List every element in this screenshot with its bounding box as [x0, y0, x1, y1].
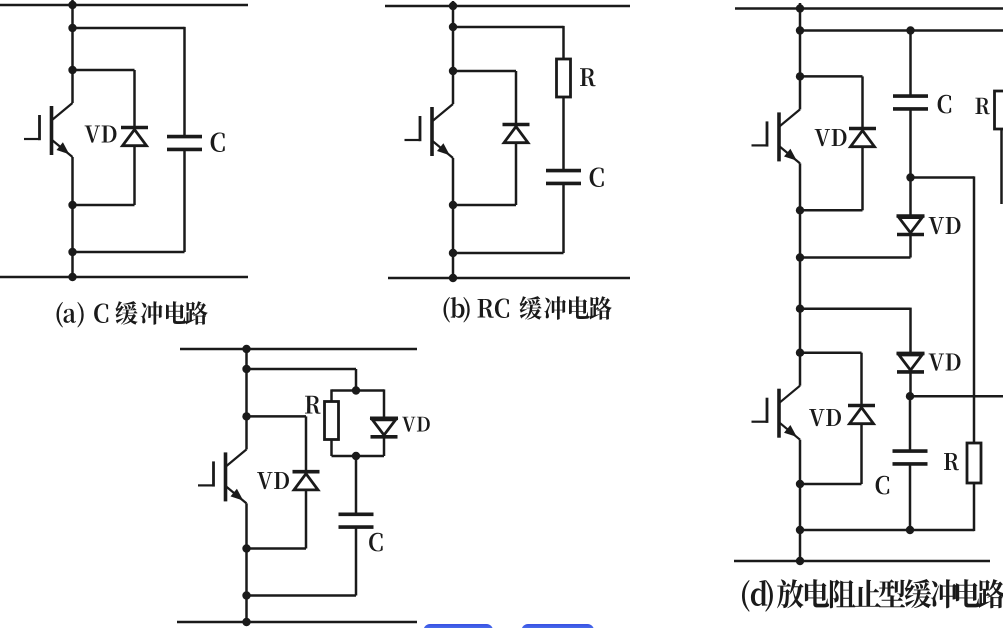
wire: VD branch bottom horizontal lower IGBT (d)	[800, 483, 862, 486]
wire: capacitor branch bottom horizontal (a)	[73, 251, 185, 254]
wire: top DC bus of circuit (b)	[385, 5, 630, 8]
node: junction dot RC return (b)	[449, 249, 457, 257]
node: junction dot capacitor C1 tap (d)	[906, 26, 914, 34]
wire: rail between IGBTs (d)	[799, 163, 802, 352]
wire: collector lead of Q1(d)	[799, 76, 802, 109]
capacitor C (a)	[167, 135, 202, 139]
transistor Q(a) (IGBT)	[24, 103, 73, 157]
wire: VD branch upper vertical lower IGBT (d)	[860, 353, 863, 406]
capacitor C upper snubber (d)	[893, 94, 928, 98]
wire: collector rail segment upper IGBT (d)	[799, 9, 802, 77]
wire: emitter rail segment (a)	[71, 157, 74, 277]
wire: VD branch lower vertical lower IGBT (d)	[860, 424, 863, 485]
wire: snubber bus horizontal (d)	[800, 29, 1003, 32]
wire: top DC bus of circuit (c)	[180, 348, 417, 351]
transistor Q(b) (IGBT)	[405, 104, 454, 158]
node: junction dot snubber branch tap (c)	[242, 365, 250, 373]
diode VD discharge (points down) (c)	[370, 416, 398, 420]
wire: diode branch lower vertical (b)	[515, 143, 518, 206]
label R (c)	[305, 396, 321, 414]
label caption (a)C缓冲电路	[57, 301, 208, 327]
label C (c)	[369, 533, 383, 552]
wire: midpoint horizontal (d)	[800, 307, 911, 310]
wire: snubber branch top horizontal (c)	[247, 368, 357, 371]
wire: capacitor lower vertical (c)	[355, 527, 358, 596]
node: junction dot emitter (b)	[449, 201, 457, 209]
wire: VD2 upper lead (d)	[909, 308, 912, 354]
node: junction dot collector (c)	[242, 412, 250, 420]
wire: top DC bus of circuit (a)	[0, 4, 248, 7]
node A: junction dot R/VD parallel top (c)	[352, 386, 360, 394]
label VD (c)	[257, 472, 289, 489]
resistor R (c)	[325, 402, 339, 440]
wire: RC branch lower vertical (b)	[562, 184, 565, 253]
wire: VD branch upper vertical upper IGBT (d)	[861, 76, 864, 128]
label R (b)	[580, 68, 596, 86]
diode VD antiparallel (a)	[121, 126, 148, 130]
node: junction dot bottom bus (d)	[796, 557, 804, 565]
wire: collector lead of Q(b)	[452, 71, 455, 104]
wire: snubber return horizontal (c)	[247, 594, 357, 597]
node B: junction dot R/VD parallel bottom (c)	[352, 452, 360, 460]
node: junction dot VD1 return on rail (d)	[796, 253, 804, 261]
node: junction dot emitter (a)	[68, 201, 76, 209]
wire: diode branch bottom horizontal (a)	[73, 204, 135, 207]
wire: emitter rail segment lower IGBT (d)	[799, 440, 802, 561]
label C upper (d)	[938, 95, 952, 114]
node: junction dot emitter (c)	[242, 544, 250, 552]
label VD parallel (c)	[402, 417, 430, 432]
transistor Q(c) (IGBT)	[198, 449, 247, 503]
node: junction dot C2 bottom (d)	[906, 526, 914, 534]
resistor R (b)	[557, 59, 571, 97]
node: junction dot snubber bottom on rail (d)	[796, 526, 804, 534]
wire: VD2 lower lead (d)	[909, 372, 912, 396]
node: junction dot RC branch tap (b)	[449, 23, 457, 31]
wire: rail stub above top bus (b)	[452, 1, 455, 6]
wire: collector lead of Q2(d)	[799, 353, 802, 386]
wire: diode branch top horizontal (c)	[247, 415, 307, 418]
wire: diode branch bottom horizontal (b)	[453, 204, 516, 207]
node: junction dot collector upper IGBT (d)	[796, 72, 804, 80]
transistor Q2(d) (IGBT)	[752, 386, 801, 440]
resistor R lower snubber (d)	[967, 443, 981, 483]
capacitor C (b)	[546, 169, 581, 173]
node: junction dot top bus / rail (b)	[449, 2, 457, 10]
diode VD1 snubber (points down) (d)	[897, 214, 925, 218]
node: junction dot top bus / rail (d)	[796, 4, 804, 12]
node A: junction dot C1/VD1 (d)	[906, 173, 914, 181]
wire: node A horizontal to R branch (d)	[911, 176, 975, 179]
node: junction dot snubber bus tap (d)	[796, 26, 804, 34]
wire: node B horizontal to image edge (d)	[910, 395, 1003, 398]
diode VD antiparallel (c)	[293, 470, 320, 474]
wire: diode branch top horizontal (b)	[453, 70, 516, 73]
wire: collector lead of Q(a)	[71, 70, 74, 103]
wire: top DC bus of circuit (d)	[735, 7, 1003, 10]
wire: C1 lower lead (d)	[909, 109, 912, 178]
wire: VD branch lower vertical upper IGBT (d)	[861, 147, 864, 211]
wire: capacitor branch top horizontal (a)	[73, 27, 185, 30]
node: junction dot capacitor branch tap (a)	[68, 24, 76, 32]
wire: resistor bottom lead (c)	[330, 440, 333, 457]
diode VD antiparallel (b)	[503, 123, 530, 127]
wire: C2 upper lead (d)	[909, 396, 912, 451]
label VD (a)	[85, 126, 117, 143]
node: junction dot emitter upper IGBT (d)	[796, 206, 804, 214]
capacitor C lower snubber (d)	[893, 449, 928, 453]
node: junction dot bottom bus (c)	[242, 618, 250, 626]
node: junction dot snubber return (c)	[242, 591, 250, 599]
capacitor C (c)	[339, 512, 374, 516]
node: junction dot collector (a)	[68, 66, 76, 74]
wire: collector lead of Q(c)	[245, 416, 248, 449]
node: junction dot collector lower IGBT (d)	[796, 349, 804, 357]
wire: bottom DC bus of circuit (c)	[177, 621, 417, 624]
label VD1 (d)	[929, 217, 961, 234]
wire: C2 lower lead (d)	[909, 464, 912, 530]
diode VD2 snubber (points down) (d)	[897, 352, 925, 356]
label R upper (d)	[975, 98, 989, 115]
label C (a)	[211, 133, 225, 153]
wire: RC branch bottom horizontal (b)	[453, 252, 564, 255]
wire: bottom DC bus of circuit (d)	[734, 560, 990, 563]
node: junction dot midpoint tap (d)	[796, 305, 804, 313]
wire: VD branch bottom horizontal upper IGBT (d)	[800, 209, 863, 212]
diode VD antiparallel lower IGBT (d)	[848, 404, 875, 408]
wire: emitter rail segment (c)	[245, 503, 248, 622]
node: junction dot bottom bus (b)	[449, 274, 457, 282]
label R lower (d)	[944, 453, 959, 470]
wire: VD1 upper lead (d)	[909, 178, 912, 217]
wire: capacitor branch upper vertical (a)	[183, 27, 186, 137]
wire: VD branch top horizontal upper IGBT (d)	[800, 75, 863, 78]
wire: diode branch upper vertical (b)	[515, 71, 518, 125]
wire: VD1 lower lead (d)	[909, 235, 912, 258]
wire: collector rail segment (b)	[452, 6, 455, 71]
wire: rail stub above top bus (a)	[71, 0, 74, 5]
wire: R upper bottom lead (d)	[1000, 129, 1003, 204]
label C (b)	[590, 168, 604, 188]
label C lower (d)	[876, 476, 890, 495]
decorative: blue button 1 (partially visible)	[424, 624, 494, 628]
wire: rail stub above top bus (d)	[799, 3, 802, 9]
wire: C1 upper lead (d)	[909, 31, 912, 97]
wire: resistor-to-capacitor vertical (b)	[562, 97, 565, 170]
wire: diode branch lower vertical (c)	[305, 490, 308, 549]
diode VD antiparallel upper IGBT (d)	[849, 127, 876, 131]
wire: parallel diode top lead (c)	[383, 389, 386, 418]
wire: VD branch top horizontal lower IGBT (d)	[800, 351, 862, 354]
wire: diode branch upper vertical (c)	[305, 416, 308, 472]
wire: parallel diode bottom lead (c)	[383, 437, 386, 456]
wire: RC branch lead into resistor (b)	[562, 26, 565, 59]
wire: collector rail segment (a)	[71, 5, 74, 70]
label VD antiparallel upper (d)	[815, 129, 847, 146]
wire: parallel loop top horizontal (c)	[332, 389, 385, 392]
decorative: blue button 2 (partially visible)	[522, 624, 595, 628]
wire: bottom DC bus of circuit (a)	[0, 276, 248, 279]
wire: parallel loop bottom horizontal (c)	[332, 455, 385, 458]
wire: R lower bottom lead (d)	[973, 483, 976, 531]
wire: collector rail segment (c)	[245, 349, 248, 416]
wire: resistor top lead (c)	[330, 389, 333, 401]
label VD2 (d)	[929, 354, 961, 371]
wire: diode branch top horizontal (a)	[73, 69, 135, 72]
wire: snubber feed vertical (c)	[355, 369, 358, 391]
wire: capacitor branch lower vertical (a)	[183, 149, 186, 252]
label caption (d)放电阻止型缓冲电路	[742, 579, 1003, 612]
wire: bottom DC bus of circuit (b)	[388, 277, 630, 280]
node: junction dot collector (b)	[449, 67, 457, 75]
label caption (b) RC 缓冲电路	[444, 296, 612, 322]
wire: VD1 return horizontal (d)	[800, 256, 911, 259]
node: junction dot top bus / rail (c)	[242, 345, 250, 353]
node: junction dot emitter lower IGBT (d)	[796, 480, 804, 488]
wire: snubber bottom horizontal (d)	[800, 529, 974, 532]
label VD antiparallel lower (d)	[809, 409, 841, 426]
node: junction dot top bus / rail (a)	[68, 1, 76, 9]
wire: RC branch top horizontal (b)	[453, 26, 564, 29]
wire: diode branch upper vertical (a)	[133, 70, 136, 128]
node: junction dot bottom bus (a)	[68, 273, 76, 281]
wire: diode branch bottom horizontal (c)	[247, 547, 307, 550]
node B: junction dot VD2/C2 (d)	[906, 392, 914, 400]
wire: diode branch lower vertical (a)	[133, 146, 136, 206]
transistor Q1(d) (IGBT)	[752, 109, 801, 163]
wire: emitter rail segment (b)	[452, 158, 455, 278]
node: junction dot capacitor return (a)	[68, 248, 76, 256]
resistor R upper snubber, clipped at image edge (d)	[995, 91, 1003, 129]
wire: R branch vertical from node A (d)	[973, 176, 976, 443]
wire: capacitor feed vertical (c)	[355, 456, 358, 514]
